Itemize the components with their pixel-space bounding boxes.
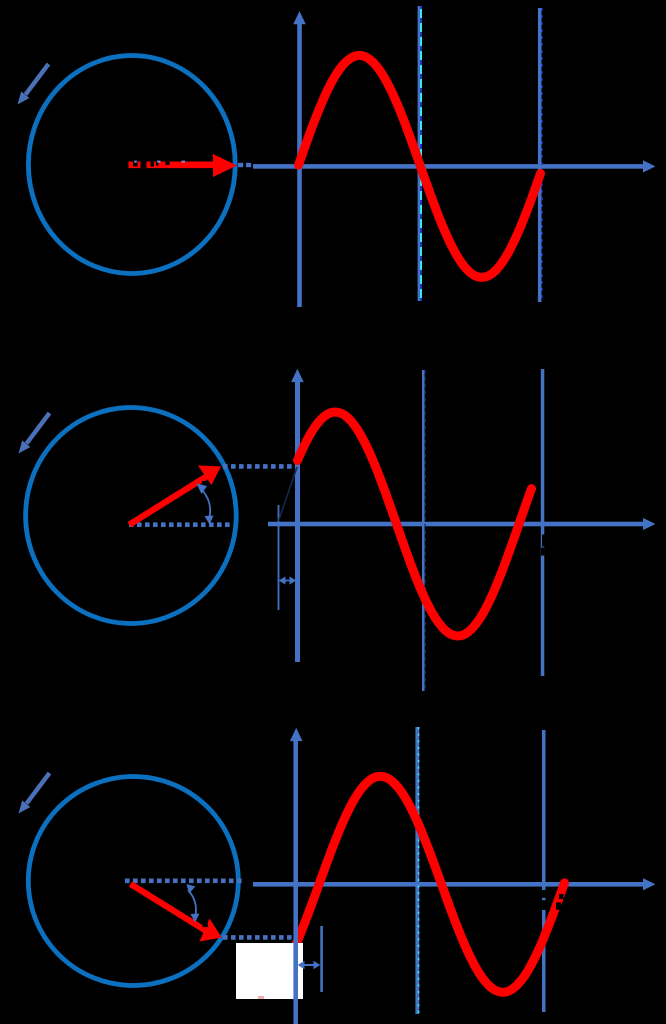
navy leader line to curve start (graph 2) bbox=[279, 467, 298, 521]
phase offset tick line (graph 3) bbox=[320, 926, 323, 992]
pink smudge at box bottom edge bbox=[258, 996, 264, 999]
black t2 label notch over curve (graph 3) bbox=[556, 894, 564, 910]
sine wave u(t) (graph 1) bbox=[299, 55, 541, 277]
horizontal axis t (graph 1) bbox=[253, 160, 656, 172]
phasor circle 3 bbox=[28, 777, 238, 986]
red phasor arrow (circle 1) bbox=[129, 154, 238, 177]
dashed link from phasor tip to axis (diagram 1) bbox=[238, 163, 251, 167]
sine wave shifted right (graph 3) bbox=[294, 776, 565, 992]
dotted projection line to curve start (diagram 2) bbox=[223, 464, 295, 469]
phase offset tick line (graph 2) bbox=[278, 505, 280, 610]
T marker line (graph 2, partial notches from black T label) bbox=[541, 369, 545, 676]
horizontal axis t (graph 3) bbox=[253, 878, 656, 890]
T/2 marker line (graph 1) with cyan dash-dot bbox=[418, 6, 421, 301]
T marker line (graph 1) bbox=[538, 8, 542, 302]
dotted radius reference line (circle 2) bbox=[129, 522, 233, 527]
T marker line (graph 3, gap where black t2 label sits) bbox=[542, 730, 546, 1012]
red phasor arrow (circle 2, +32 deg) bbox=[129, 465, 221, 524]
white label box (diagram 3) bbox=[236, 943, 303, 999]
rotation arrow (circle 3) bbox=[19, 773, 50, 814]
phase offset double arrow (graph 2) bbox=[279, 576, 297, 584]
vertical axis u (graph 1) bbox=[293, 11, 306, 307]
phasor circle 2 bbox=[26, 408, 237, 624]
vertical axis u (graph 2) bbox=[291, 369, 304, 662]
phase offset double arrow (graph 3) bbox=[298, 961, 321, 970]
T/2 marker line (graph 3) with cyan dots bbox=[415, 727, 419, 1014]
angle arc phi with arrowheads (circle 2) bbox=[197, 484, 214, 525]
sine wave shifted left (graph 2) bbox=[298, 412, 532, 636]
black label notches over phasor arrow (invisible text remnants) bbox=[133, 161, 185, 169]
horizontal axis t (graph 2) bbox=[268, 518, 656, 530]
phasor circle 1 bbox=[28, 56, 235, 274]
rotation arrow (counterclockwise indicator, circle 1) bbox=[18, 64, 49, 105]
dotted projection line to curve start (diagram 3) bbox=[223, 935, 298, 940]
rotation arrow (circle 2) bbox=[19, 413, 50, 454]
red phasor arrow (circle 3, -32 deg) bbox=[131, 884, 222, 942]
vertical axis u (graph 3) bbox=[290, 728, 303, 1024]
T/2 marker line (graph 2) bbox=[422, 370, 425, 691]
dotted radius reference line (circle 3) bbox=[125, 878, 243, 883]
angle arc phi with arrowheads (circle 3) bbox=[187, 884, 200, 923]
